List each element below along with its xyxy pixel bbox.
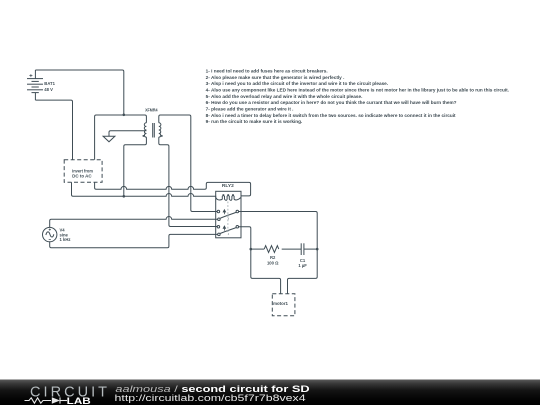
svg-text:BAT1: BAT1 [44,81,55,86]
svg-text:1 kHz: 1 kHz [60,237,71,242]
svg-text:1- i need tol need to add fuse: 1- i need tol need to add fuses here as … [206,68,328,73]
svg-text:motor1: motor1 [273,301,289,306]
svg-text:R2: R2 [270,255,276,260]
svg-text:7- please add the generator an: 7- please add the generator and wire it … [206,107,294,112]
svg-text:100 Ω: 100 Ω [267,260,279,265]
svg-text:RLY2: RLY2 [222,183,235,188]
svg-text:2- Also please make sure that: 2- Also please make sure that the genera… [206,75,345,80]
svg-text:3- Alsp i need you to add the: 3- Alsp i need you to add the circuit of… [206,81,388,86]
svg-text:1 µF: 1 µF [298,263,307,268]
svg-text:48 V: 48 V [44,87,53,92]
svg-text:8- Also i need a timer to dela: 8- Also i need a timer to delay before i… [206,113,456,118]
svg-text:LAB: LAB [67,396,91,405]
svg-text:9- run the circuit to make sur: 9- run the circuit to make sure it is wo… [206,119,303,124]
svg-text:5- Also add the overload relay: 5- Also add the overload relay and wire … [206,94,363,99]
svg-text:DC to AC: DC to AC [72,174,92,179]
svg-text:http://circuitlab.com/cb5f7r7b: http://circuitlab.com/cb5f7r7b8vex4 [115,393,306,403]
svg-text:4- Also use any component like: 4- Also use any component like LED here … [206,87,509,92]
svg-text:6- How do you use a resistor a: 6- How do you use a resistor and cepacto… [206,100,457,105]
svg-text:XFMR4: XFMR4 [145,108,158,113]
